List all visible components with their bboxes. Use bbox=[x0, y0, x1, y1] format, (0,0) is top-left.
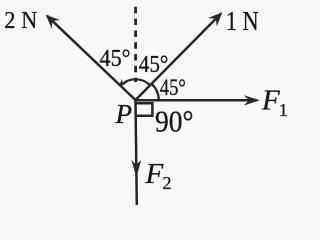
svg-text:45°: 45° bbox=[100, 46, 131, 72]
svg-text:45°: 45° bbox=[160, 75, 186, 100]
angle arc 45 between 1N and F1 bbox=[152, 84, 159, 100]
arrowhead F1 bbox=[244, 95, 260, 105]
wire force line F1 bbox=[136, 99, 258, 102]
svg-text:F: F bbox=[145, 158, 164, 190]
right angle box at P bbox=[136, 103, 152, 115]
arrowhead F2 bbox=[131, 160, 141, 178]
angle arc 45/45 bbox=[121, 79, 150, 85]
arc arrowhead bbox=[119, 79, 127, 87]
arrowhead 1N bbox=[208, 12, 222, 26]
svg-text:F: F bbox=[261, 85, 280, 117]
svg-text:P: P bbox=[115, 99, 133, 129]
svg-text:90°: 90° bbox=[155, 104, 194, 139]
svg-text:2 N: 2 N bbox=[4, 8, 37, 34]
svg-text:1 N: 1 N bbox=[226, 6, 259, 36]
svg-text:2: 2 bbox=[163, 173, 172, 193]
wire force line 1N bbox=[136, 14, 222, 101]
wire force line 2N bbox=[47, 16, 136, 100]
arrowhead 2N bbox=[46, 15, 60, 29]
svg-text:1: 1 bbox=[279, 100, 288, 120]
wire force line F2 bbox=[136, 100, 137, 205]
dashed vertical reference line bbox=[134, 7, 137, 82]
